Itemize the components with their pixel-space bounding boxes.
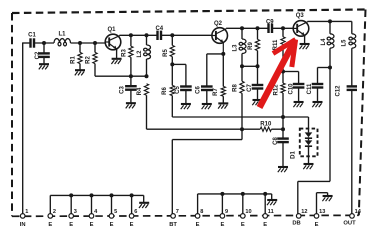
terminal pin 2 E [48, 214, 53, 219]
inductor L1 [54, 39, 60, 43]
diode D1a [305, 132, 313, 137]
terminal pin 14 OUT [350, 214, 355, 219]
svg-text:R1: R1 [71, 56, 77, 64]
svg-text:IN: IN [20, 222, 26, 228]
svg-text:11: 11 [268, 209, 274, 215]
svg-text:C6: C6 [195, 86, 201, 94]
wire to C5 [172, 63, 186, 65]
svg-text:OUT: OUT [343, 220, 356, 226]
svg-text:E: E [130, 222, 134, 228]
svg-text:Q3: Q3 [296, 13, 305, 19]
capacitor C12 [347, 85, 357, 87]
wire bus B y129 (R4 to C8) [147, 128, 261, 130]
svg-text:4: 4 [94, 209, 98, 215]
svg-text:7: 7 [176, 209, 179, 215]
wire terminal 13 to ground [316, 193, 318, 214]
capacitor C8 [282, 129, 284, 138]
terminal pin 11 E [263, 214, 268, 219]
terminal pin 7 BT [171, 214, 176, 219]
inductor L3 [241, 28, 243, 39]
wire L1 to Q1 base [71, 42, 106, 44]
svg-text:L1: L1 [58, 32, 66, 38]
node R8-busC junction [240, 127, 244, 131]
svg-text:E: E [196, 222, 200, 228]
capacitor C10 [298, 72, 300, 84]
svg-text:E: E [48, 222, 52, 228]
node R4 junction [145, 74, 149, 78]
transistor Q2 [212, 28, 228, 54]
svg-text:12: 12 [301, 209, 307, 215]
node R11 top [281, 26, 285, 30]
capacitor C6 [201, 85, 213, 87]
capacitor C1 [29, 38, 31, 47]
capacitor C7 [257, 66, 259, 84]
resistor R12 [282, 72, 284, 84]
svg-text:2: 2 [53, 209, 56, 215]
node L3 top [240, 26, 244, 30]
svg-text:C4: C4 [155, 26, 163, 32]
wire to C10 [283, 71, 299, 73]
svg-text:L5: L5 [342, 39, 348, 47]
wire E-bus terminals 2-6 [50, 194, 143, 196]
node R3 top [129, 33, 133, 37]
ground E-bus left [139, 203, 149, 208]
svg-text:BT: BT [169, 222, 177, 228]
node C3 junction [129, 74, 133, 78]
transistor Q1 [105, 34, 121, 50]
transistor Q3 [293, 21, 309, 37]
wire Q2 collector rail [226, 27, 268, 29]
svg-text:10: 10 [245, 209, 251, 215]
wire Q3 emitter to ground [304, 35, 306, 43]
capacitor C3 [130, 76, 132, 85]
ground R7 [218, 103, 228, 108]
wire bus A y117 (R6 to D1) [172, 116, 308, 118]
svg-text:13: 13 [319, 209, 325, 215]
wire L3-R9 bottom junction [242, 65, 258, 67]
wire C9 to Q3 base [273, 27, 293, 29]
svg-text:E: E [220, 222, 224, 228]
wire L4 branch down to DB [329, 68, 331, 182]
terminal pin 13 E [314, 214, 319, 219]
ground Q3 emitter [299, 44, 309, 49]
svg-text:C7: C7 [247, 84, 253, 92]
ground C10 [293, 102, 303, 107]
ground R1 [75, 70, 85, 75]
node R12 on bus A [281, 115, 285, 119]
resistor R4 [144, 84, 148, 95]
resistor R8 [241, 66, 243, 81]
svg-text:E: E [90, 222, 94, 228]
svg-text:E: E [110, 222, 114, 228]
resistor R3 [130, 35, 132, 46]
resistor R7 [222, 54, 224, 87]
svg-text:C8: C8 [273, 137, 279, 145]
svg-text:C11: C11 [307, 83, 313, 94]
inductor L4 [329, 21, 331, 33]
svg-text:5: 5 [114, 209, 117, 215]
resistor R1 [79, 43, 81, 52]
node C8 top [281, 127, 285, 131]
svg-text:L4: L4 [321, 38, 327, 46]
svg-text:C1: C1 [28, 32, 36, 38]
ground C11 [312, 102, 322, 107]
inductor L2 [146, 35, 148, 45]
svg-text:E: E [69, 222, 73, 228]
capacitor C9 [267, 24, 269, 33]
red annotation arrow pointing at Q3 [260, 40, 296, 108]
resistor R11 [282, 28, 284, 37]
wire C4 to Q2 base [162, 34, 212, 36]
svg-text:R9: R9 [248, 42, 254, 50]
resistor R9 [257, 28, 259, 39]
wire Q2 emitter junction [221, 52, 225, 56]
ground D1 [303, 164, 313, 169]
svg-text:R10: R10 [260, 121, 272, 127]
svg-text:D1: D1 [291, 151, 297, 159]
terminal pin 3 E [69, 214, 74, 219]
node L2 top [145, 33, 149, 37]
svg-text:C9: C9 [266, 20, 274, 26]
wire IN riser [22, 43, 24, 214]
ground C6 [202, 104, 212, 109]
node R5-R6-C5 junction [170, 62, 174, 66]
svg-text:E: E [315, 222, 319, 228]
node L4-C11 junction [328, 66, 332, 70]
resistor R10 [260, 127, 271, 131]
svg-text:R7: R7 [213, 88, 219, 96]
module outline dashed border [12, 10, 366, 217]
terminal pin 6 E [129, 214, 134, 219]
svg-text:R2: R2 [86, 56, 92, 64]
ground E-bus right [267, 200, 277, 205]
terminal pin 5 E [109, 214, 114, 219]
ground C3 [126, 103, 136, 108]
svg-text:9: 9 [225, 209, 228, 215]
svg-text:C10: C10 [288, 83, 294, 95]
ground C5 [181, 104, 191, 109]
svg-text:1: 1 [25, 209, 28, 215]
ground C7 [252, 100, 262, 105]
svg-text:14: 14 [355, 209, 362, 215]
wire R10 to C8 node [271, 128, 283, 130]
svg-text:Q2: Q2 [214, 21, 223, 27]
wire bus A drop to D1 [308, 117, 310, 129]
svg-text:R6: R6 [162, 87, 168, 95]
ground C8 [278, 167, 288, 172]
svg-text:Q1: Q1 [107, 27, 116, 33]
wire C1 to L1 [35, 42, 54, 44]
svg-text:C2: C2 [35, 51, 41, 59]
svg-text:R5: R5 [163, 49, 169, 57]
wire input to C1 [22, 42, 30, 44]
node input-C2 junction [42, 41, 46, 45]
svg-text:C5: C5 [175, 86, 181, 94]
terminal pin 10 E [241, 214, 246, 219]
capacitor C5 [185, 64, 187, 85]
capacitor C4 [156, 31, 158, 40]
resistor R2 [94, 43, 96, 52]
wire Q1 emitter to ground [116, 50, 118, 59]
svg-text:R8: R8 [233, 84, 239, 92]
ground Q1 emitter [111, 59, 121, 64]
svg-text:6: 6 [134, 209, 137, 215]
wire to C11 [318, 67, 331, 69]
svg-text:C12: C12 [335, 85, 341, 97]
svg-text:L3: L3 [232, 44, 238, 52]
svg-text:8: 8 [200, 209, 203, 215]
diode D1 dashed box [300, 129, 318, 157]
resistor R6 [171, 64, 173, 85]
diode D1b [305, 140, 313, 145]
node R5 top [170, 33, 174, 37]
wire E-bus terminals 8-11 [198, 193, 272, 195]
ground terminal 13 [322, 196, 332, 201]
wire Q2 emitter to C6 [207, 53, 224, 55]
capacitor C2 [43, 43, 45, 53]
svg-text:R4: R4 [137, 87, 143, 95]
terminal pin 12 DB [296, 214, 301, 219]
capacitor C11 [317, 68, 319, 84]
terminal pin 9 E [220, 214, 225, 219]
wire Q1 collector rail [119, 34, 157, 36]
inductor L5 [351, 21, 353, 33]
node R9 top [256, 26, 260, 30]
svg-text:L2: L2 [137, 50, 143, 58]
wire base bias rail y76 [95, 75, 147, 77]
terminal pin 8 E [195, 214, 200, 219]
wire Q3 collector rail [307, 20, 351, 22]
svg-text:E: E [241, 222, 245, 228]
ground C2 [39, 64, 49, 69]
svg-text:E: E [263, 222, 267, 228]
node R1 junction [78, 41, 82, 45]
svg-text:C3: C3 [120, 86, 126, 94]
wire bus C y139.6 (BT feed) [172, 139, 242, 141]
svg-text:R3: R3 [122, 49, 128, 57]
wire D1 to ground [308, 146, 310, 163]
node R11-R12-C10 junction [281, 70, 285, 74]
resistor R5 [171, 35, 173, 45]
svg-text:3: 3 [74, 209, 77, 215]
svg-text:DB: DB [292, 220, 300, 226]
wire BT riser [171, 140, 173, 214]
node L4 top [328, 19, 332, 23]
terminal pin 1 IN [20, 214, 25, 219]
node R2 junction [93, 41, 97, 45]
terminal pin 4 E [89, 214, 94, 219]
